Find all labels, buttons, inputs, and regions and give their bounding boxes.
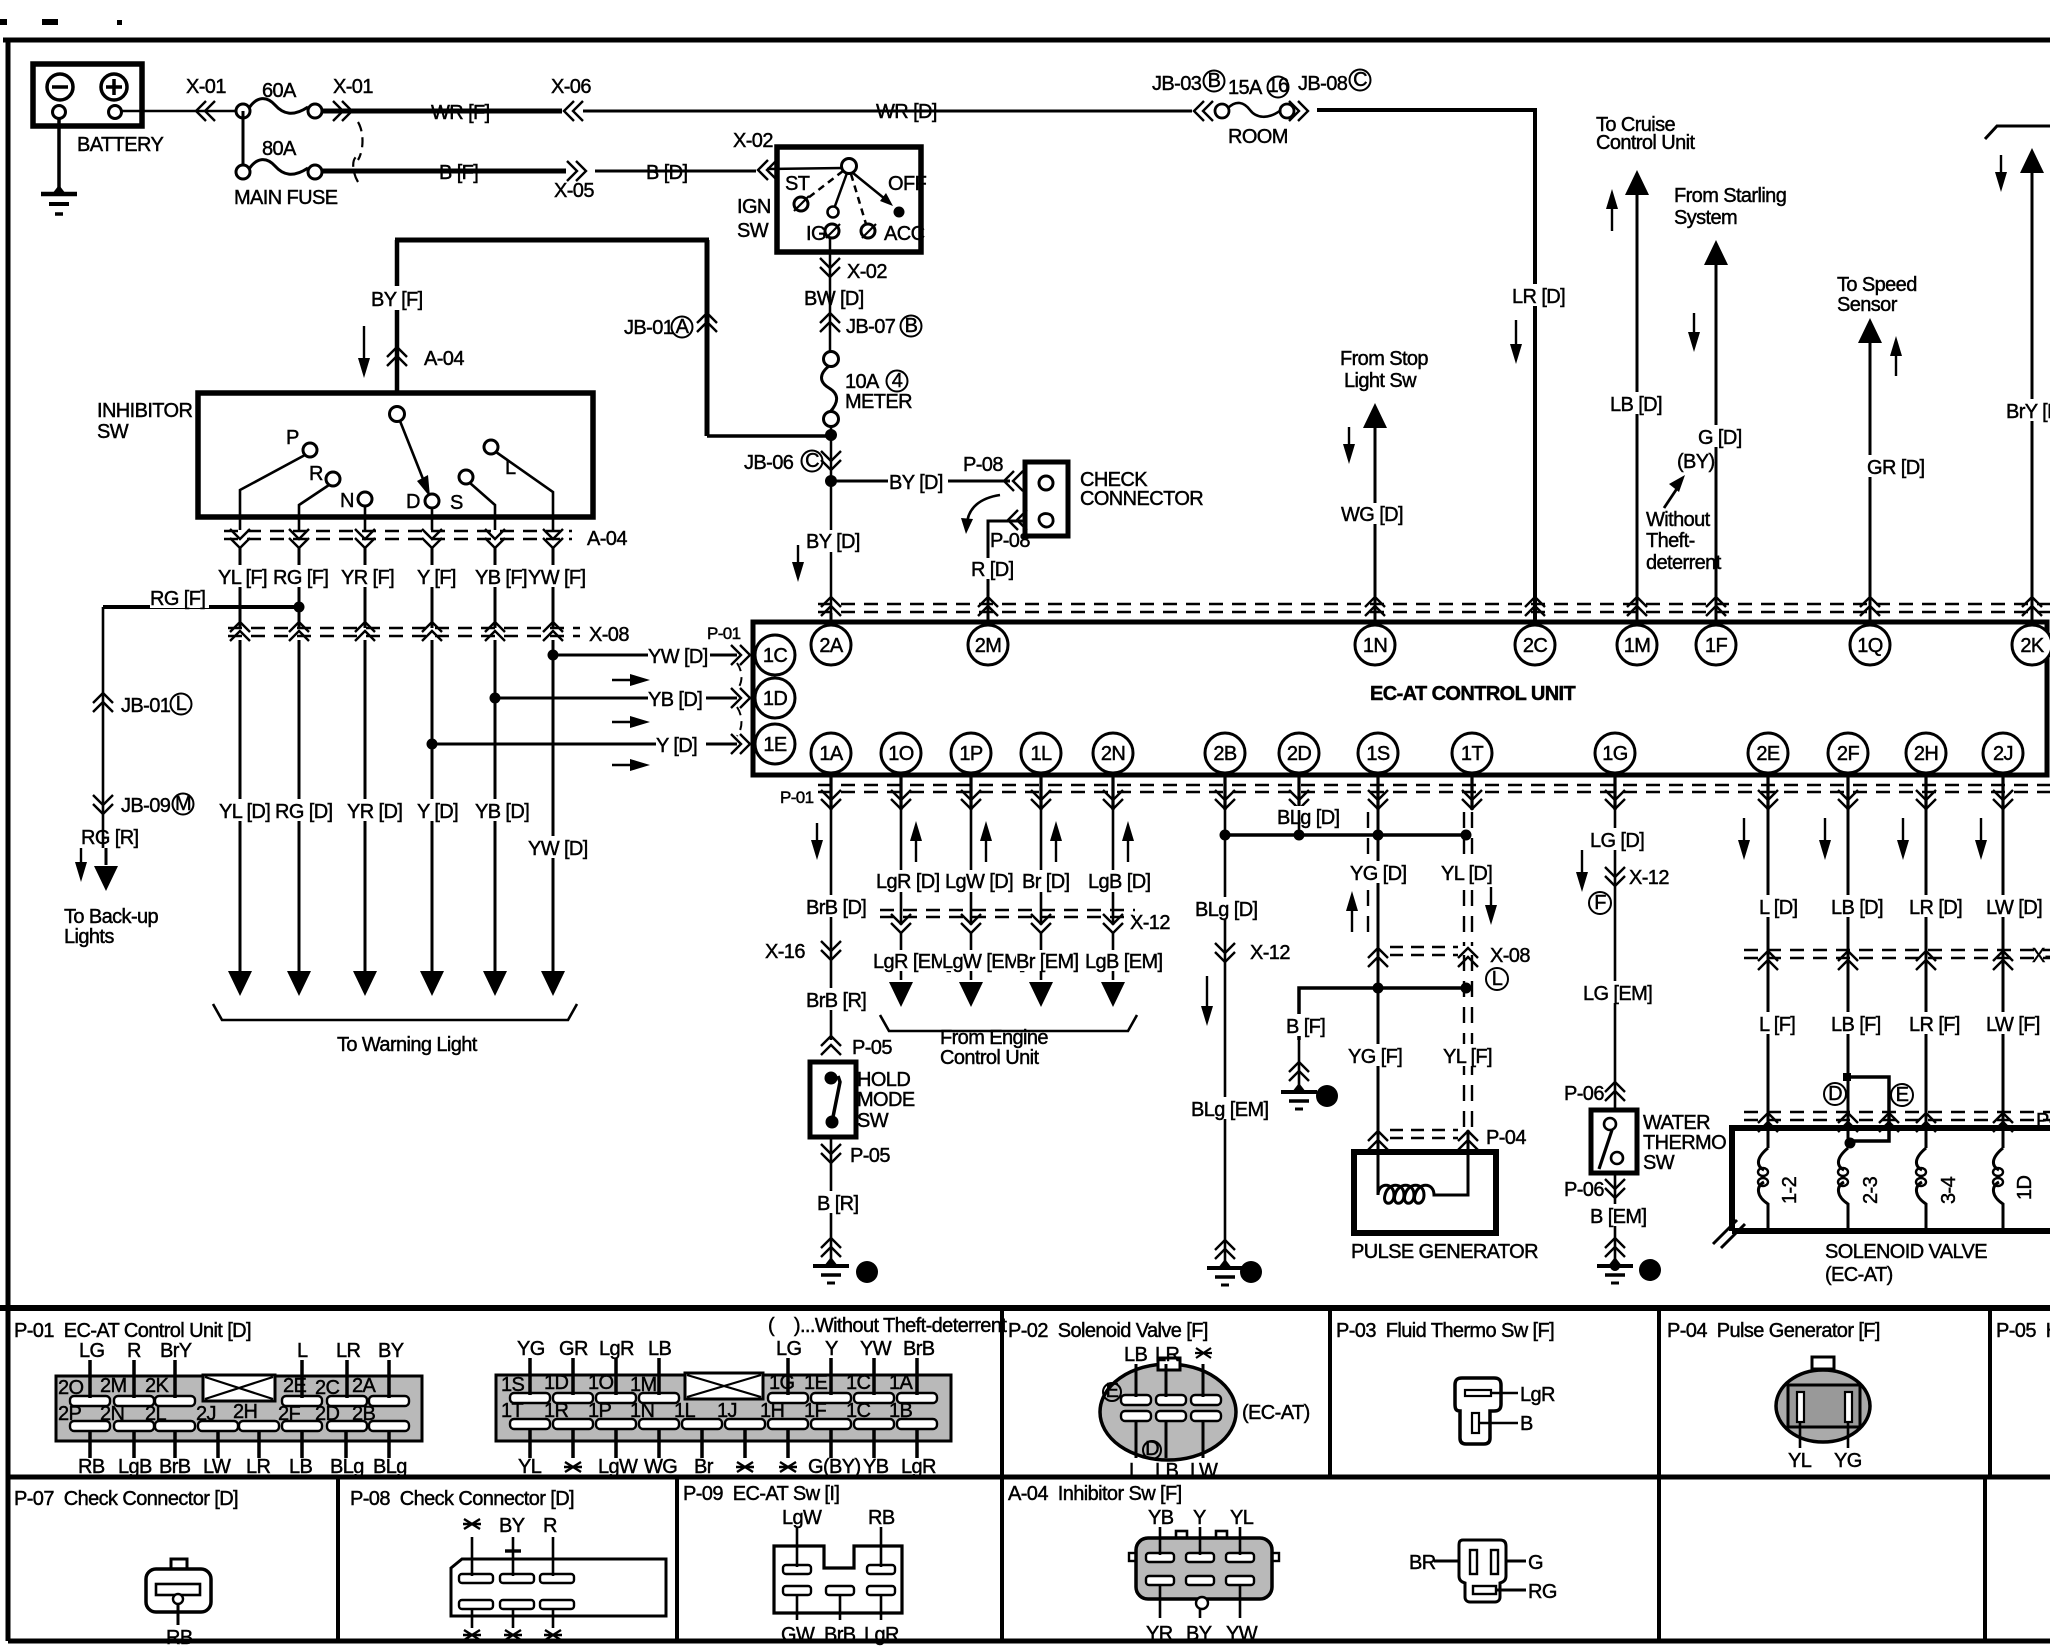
fuse meter 10A <box>822 352 839 427</box>
svg-text:SOLENOID VALVE: SOLENOID VALVE <box>1825 1241 1987 1263</box>
wires down to warning lights <box>240 640 553 972</box>
table row divider <box>8 1475 2050 1480</box>
bottom pin stubs <box>831 773 2003 810</box>
wire RG F branch horizontal <box>103 605 299 609</box>
svg-text:1Q: 1Q <box>1857 635 1883 657</box>
ground 1 <box>1281 1083 1317 1109</box>
svg-text:LG: LG <box>776 1338 802 1360</box>
arrow down YL <box>1485 887 1497 925</box>
svg-text:LgR [EM]: LgR [EM] <box>873 951 952 973</box>
ign sw arm to ST <box>808 171 843 198</box>
svg-text:L: L <box>176 693 187 715</box>
svg-text:GR [D]: GR [D] <box>1867 457 1925 479</box>
svg-text:2D: 2D <box>1287 743 1312 765</box>
connector X-01 right <box>333 101 352 121</box>
wire 1S dashed parallel <box>1367 812 1369 940</box>
pin 1P <box>951 733 991 773</box>
bus X-0 solenoid <box>1744 950 2050 958</box>
svg-text:1M: 1M <box>630 1374 657 1396</box>
junction 1S <box>1373 830 1384 841</box>
wire WR D <box>583 110 1192 113</box>
wire B F ground branch <box>1299 988 1466 1040</box>
svg-text:X-01: X-01 <box>333 76 373 98</box>
wire check conn bottom to 2M <box>988 521 1025 623</box>
svg-text:BrB [D]: BrB [D] <box>806 897 866 919</box>
svg-text:RG [F]: RG [F] <box>273 567 328 589</box>
connector JB-01 A <box>697 313 717 332</box>
svg-text:1-2: 1-2 <box>1779 1176 1801 1204</box>
wire B F <box>322 169 566 174</box>
connector P-04 on YG <box>1368 1131 1388 1150</box>
svg-text:X-12: X-12 <box>1130 912 1170 934</box>
svg-text:S: S <box>450 492 463 514</box>
svg-text:YL: YL <box>1788 1450 1812 1472</box>
svg-text:INHIBITOR: INHIBITOR <box>97 400 193 422</box>
svg-text:SW: SW <box>1643 1152 1675 1174</box>
svg-text:2M: 2M <box>100 1375 127 1397</box>
asterisk marks bottom row1 <box>564 1462 797 1472</box>
label BLg D top <box>1277 806 1340 829</box>
svg-text:L [D]: L [D] <box>1759 897 1798 919</box>
arrow down small beside 1N <box>1343 427 1355 464</box>
svg-text:RG: RG <box>1528 1581 1557 1603</box>
svg-text:BLg [EM]: BLg [EM] <box>1191 1099 1268 1121</box>
svg-text:1P: 1P <box>588 1400 612 1422</box>
svg-text:Theft-: Theft- <box>1646 530 1695 552</box>
svg-text:Br: Br <box>694 1456 714 1478</box>
arrow up big 1M cruise <box>1625 170 1649 195</box>
label YG D <box>1350 861 1406 885</box>
ign sw ST contact <box>794 196 809 211</box>
pin 2H <box>1906 733 1946 773</box>
svg-text:LgR [D]: LgR [D] <box>876 871 940 893</box>
bus P-01 bottom chevrons <box>821 790 841 809</box>
wire RG left vertical <box>102 607 105 848</box>
inhibitor sw box <box>198 393 593 517</box>
svg-text:LgR: LgR <box>901 1456 936 1478</box>
P04 leads <box>1800 1422 1848 1448</box>
top pin stubs <box>831 613 2032 623</box>
EC-AT control unit box <box>753 622 2047 775</box>
label YL F <box>1443 1044 1492 1068</box>
connector chevron into check conn bottom <box>1008 510 1027 530</box>
wire JB-01 A vertical <box>705 240 710 436</box>
P01 left bottom wire labels <box>78 1431 407 1478</box>
svg-text:B: B <box>1520 1413 1533 1435</box>
P01 right block body <box>496 1373 951 1441</box>
svg-text:P-05: P-05 <box>852 1037 892 1059</box>
connector P-06 lower <box>1605 1179 1625 1198</box>
connector JB-08 C <box>1289 101 1308 121</box>
connector gnd 1A <box>821 1238 841 1257</box>
arrow right Y <box>612 759 650 771</box>
P02 circled E <box>1103 1380 1121 1402</box>
svg-text:1A: 1A <box>819 743 844 765</box>
svg-text:BrB [R]: BrB [R] <box>806 990 866 1012</box>
circled 4 <box>887 370 908 392</box>
wire 2B down <box>1224 810 1227 1264</box>
ign sw arm to IG <box>835 173 847 206</box>
svg-text:YW: YW <box>1226 1623 1258 1645</box>
pin 1G <box>1595 733 1635 773</box>
label WG D <box>1341 503 1407 526</box>
svg-text:LB [D]: LB [D] <box>1610 394 1662 416</box>
svg-text:1E: 1E <box>804 1372 828 1394</box>
connector gnd 2B <box>1215 1240 1235 1259</box>
arrow down small beside 2C <box>1510 320 1522 364</box>
svg-text:Without: Without <box>1646 509 1711 531</box>
svg-text:2F: 2F <box>278 1403 301 1425</box>
wire YL F lower solid <box>1467 1130 1470 1155</box>
svg-text:P-03 Fluid Thermo Sw [F]: P-03 Fluid Thermo Sw [F] <box>1336 1320 1554 1342</box>
labels solenoid D <box>1759 895 1799 919</box>
circled M <box>173 793 194 815</box>
svg-text:1E: 1E <box>763 734 787 756</box>
svg-text:BLg: BLg <box>330 1456 364 1478</box>
svg-text:YB [D]: YB [D] <box>475 801 529 823</box>
labels D row <box>219 799 273 823</box>
svg-text:E: E <box>1896 1084 1909 1106</box>
lead N <box>364 506 367 530</box>
svg-text:X-12: X-12 <box>1629 867 1669 889</box>
svg-text:8: 8 <box>1246 1261 1257 1283</box>
lead P <box>240 455 305 530</box>
svg-text:P-04 Pulse Generator [F]: P-04 Pulse Generator [F] <box>1667 1320 1880 1342</box>
ground 7 <box>1597 1257 1633 1283</box>
svg-text:1F: 1F <box>1705 635 1728 657</box>
svg-text:LR: LR <box>246 1456 271 1478</box>
svg-text:CONNECTOR: CONNECTOR <box>1080 488 1203 510</box>
svg-text:IGN: IGN <box>737 196 771 218</box>
svg-text:16: 16 <box>1267 75 1289 97</box>
connector JB-06 C <box>821 451 841 470</box>
svg-text:P-01 EC-AT Control Unit [D]: P-01 EC-AT Control Unit [D] <box>14 1320 251 1342</box>
P09 connector <box>774 1546 902 1613</box>
svg-text:X-08: X-08 <box>589 624 629 646</box>
svg-text:YL: YL <box>518 1456 542 1478</box>
pin 1O <box>881 733 921 773</box>
svg-text:L: L <box>1129 1460 1140 1482</box>
svg-text:1G: 1G <box>1602 743 1628 765</box>
svg-text:1T: 1T <box>1461 743 1484 765</box>
lead S <box>470 483 495 530</box>
pin 2F <box>1828 733 1868 773</box>
svg-text:YW: YW <box>860 1338 892 1360</box>
svg-text:P-01: P-01 <box>780 788 814 807</box>
svg-text:BY [F]: BY [F] <box>371 289 423 311</box>
svg-text:Y: Y <box>1193 1507 1206 1529</box>
bus P-01 top <box>818 604 2050 612</box>
contact D <box>425 494 439 508</box>
svg-text:3-4: 3-4 <box>1938 1176 1960 1204</box>
svg-text:1D: 1D <box>544 1372 569 1394</box>
arrow down small beside 1F <box>1688 313 1700 352</box>
svg-text:P-05 H: P-05 H <box>1996 1320 2050 1342</box>
svg-text:ROOM: ROOM <box>1228 126 1288 148</box>
A04 slots <box>1146 1553 1254 1585</box>
A04 bottom leads <box>1160 1585 1240 1618</box>
connector X-08 on 1S <box>1368 948 1388 967</box>
svg-text:LR [F]: LR [F] <box>1909 1014 1960 1036</box>
ground number 6 <box>856 1261 878 1283</box>
junction 2B BLg <box>1220 830 1231 841</box>
contact R <box>326 472 340 486</box>
svg-text:BR: BR <box>1409 1552 1436 1574</box>
P01 left block bottom pins <box>70 1421 409 1431</box>
label B EM <box>1590 1204 1646 1228</box>
svg-text:LgW: LgW <box>598 1456 638 1478</box>
svg-text:BATTERY: BATTERY <box>77 134 163 156</box>
P03 leads <box>1479 1393 1518 1423</box>
connector P-06 upper <box>1605 1082 1625 1101</box>
labels engine D row <box>876 870 940 893</box>
contact N <box>358 492 372 506</box>
svg-text:F: F <box>1594 892 1606 914</box>
check connector box <box>1025 462 1068 536</box>
arrow up big 2K <box>2020 148 2044 173</box>
svg-text:2E: 2E <box>1756 743 1780 765</box>
svg-text:2C: 2C <box>1523 635 1548 657</box>
pin 1M <box>1617 625 1657 665</box>
warning brace <box>213 1004 577 1020</box>
hold mode contacts <box>825 1072 841 1129</box>
circled B2 <box>1204 70 1225 92</box>
label LG D <box>1590 828 1644 852</box>
bus P-01 bottom <box>818 785 2050 792</box>
svg-text:LB [D]: LB [D] <box>1831 897 1883 919</box>
A04 top leads <box>1160 1527 1240 1555</box>
coil 3-4 <box>1916 1148 1926 1228</box>
table bottom border <box>8 1639 2050 1644</box>
svg-text:2K: 2K <box>2020 635 2045 657</box>
P09 top leads <box>797 1527 881 1567</box>
svg-text:MODE: MODE <box>857 1089 915 1111</box>
labels solenoid F <box>1759 1012 1799 1036</box>
wire 1F down <box>1715 262 1718 620</box>
labels F row <box>218 565 274 589</box>
check connector terminal top <box>1039 476 1053 490</box>
svg-text:LR [D]: LR [D] <box>1909 897 1962 919</box>
svg-text:LB: LB <box>1124 1344 1148 1366</box>
wire between fuses <box>242 111 245 171</box>
label LG EM <box>1583 981 1652 1005</box>
svg-text:P-01: P-01 <box>707 624 741 643</box>
svg-text:Y [D]: Y [D] <box>656 735 697 757</box>
tap YW D to 1C <box>548 650 738 661</box>
tap Y D to 1E <box>427 739 738 750</box>
svg-text:WR [D]: WR [D] <box>876 101 937 123</box>
ign sw box <box>777 147 921 252</box>
circled L pulse <box>1486 968 1508 990</box>
svg-text:7: 7 <box>1645 1259 1656 1281</box>
room fuse 15A <box>1215 103 1294 118</box>
ign sw arm to OFF <box>853 173 893 206</box>
svg-text:A-04 Inhibitor Sw [F]: A-04 Inhibitor Sw [F] <box>1008 1483 1182 1505</box>
P08 bottom leads <box>472 1609 553 1628</box>
svg-text:PULSE GENERATOR: PULSE GENERATOR <box>1351 1241 1538 1263</box>
svg-text:YB: YB <box>863 1456 889 1478</box>
svg-text:1T: 1T <box>501 1400 524 1422</box>
connector gnd thermo <box>1605 1238 1625 1257</box>
svg-text:BrB: BrB <box>824 1624 856 1646</box>
svg-text:LgW [D]: LgW [D] <box>945 871 1013 893</box>
svg-text:P-08: P-08 <box>990 530 1030 552</box>
svg-text:WATER: WATER <box>1643 1112 1710 1134</box>
wire meter fuse down <box>830 426 833 623</box>
svg-text:BrB: BrB <box>159 1456 191 1478</box>
label B F <box>1286 1014 1328 1038</box>
svg-text:2J: 2J <box>196 1403 216 1425</box>
svg-text:80A: 80A <box>262 138 297 160</box>
svg-text:1S: 1S <box>1366 743 1390 765</box>
wire B F stub <box>1298 1036 1301 1088</box>
svg-text:GW: GW <box>781 1624 815 1646</box>
table left border <box>6 1308 11 1641</box>
main fuse 80A <box>236 160 322 179</box>
svg-text:YB [D]: YB [D] <box>648 689 702 711</box>
svg-text:2D: 2D <box>315 1403 340 1425</box>
svg-text:2K: 2K <box>145 1375 170 1397</box>
junction YL end <box>1461 830 1472 841</box>
svg-text:LW: LW <box>1190 1460 1218 1482</box>
wires engine EM stubs <box>901 933 1113 980</box>
svg-text:RB: RB <box>868 1507 895 1529</box>
junction meter / JB-01 <box>825 429 837 441</box>
svg-text:2H: 2H <box>233 1401 257 1423</box>
svg-text:1L: 1L <box>1030 743 1052 765</box>
svg-text:2C: 2C <box>315 1377 340 1399</box>
svg-text:X-01: X-01 <box>186 76 226 98</box>
P08 bottom asterisks <box>463 1630 562 1640</box>
border top dashes <box>0 19 122 25</box>
label BrY D <box>2006 399 2050 423</box>
svg-text:L: L <box>1492 968 1503 990</box>
svg-text:1: 1 <box>1322 1085 1333 1107</box>
svg-text:YG: YG <box>1834 1450 1862 1472</box>
wire BY D to check connector <box>831 480 1010 483</box>
junction BY D branch <box>825 475 837 487</box>
svg-text:1R: 1R <box>544 1400 569 1422</box>
svg-text:EC-AT CONTROL UNIT: EC-AT CONTROL UNIT <box>1370 683 1575 705</box>
svg-text:C: C <box>1353 69 1367 91</box>
pin 2E <box>1748 733 1788 773</box>
svg-text:YR [D]: YR [D] <box>347 801 402 823</box>
svg-text:YG: YG <box>517 1338 545 1360</box>
P02 asterisk top <box>1195 1348 1212 1358</box>
pin 1S <box>1358 733 1398 773</box>
ground 8 <box>1207 1259 1243 1285</box>
contact P <box>303 443 317 457</box>
coil 1D <box>1993 1148 2003 1228</box>
connector dashed bracket X-01 <box>353 122 362 182</box>
svg-text:YW [F]: YW [F] <box>528 567 586 589</box>
connector X-01 left <box>196 101 215 121</box>
brace engine <box>880 1015 1137 1031</box>
arrows down solenoid <box>1738 818 1987 860</box>
A04 second connector BR G RG <box>1459 1540 1506 1602</box>
svg-text:E: E <box>1106 1380 1119 1402</box>
arrow down big backup <box>94 848 118 891</box>
svg-text:LgW [EM]: LgW [EM] <box>942 951 1025 973</box>
bus X-12 chevrons <box>891 914 911 933</box>
P01 left block cell ids <box>58 1375 377 1425</box>
solenoid valve box <box>1732 1128 2050 1231</box>
svg-text:OFF: OFF <box>888 173 927 195</box>
svg-text:LW: LW <box>203 1456 231 1478</box>
svg-text:YW [D]: YW [D] <box>648 646 708 668</box>
coil 1-2 <box>1758 1148 1768 1228</box>
svg-text:D: D <box>406 491 420 513</box>
junction YG at 988 <box>1373 983 1384 994</box>
svg-text:From Engine: From Engine <box>940 1027 1048 1049</box>
svg-text:LG [D]: LG [D] <box>1590 830 1644 852</box>
arrow up big 1F starting <box>1704 240 1728 265</box>
P01 left block top pins <box>70 1396 409 1406</box>
battery plus terminal <box>101 74 127 100</box>
svg-text:B [EM]: B [EM] <box>1590 1206 1646 1228</box>
svg-text:LB [F]: LB [F] <box>1831 1014 1881 1036</box>
svg-text:YR: YR <box>1146 1623 1173 1645</box>
P02 bottom leads <box>1136 1421 1203 1458</box>
wire YL F down <box>1464 955 1472 1130</box>
battery post circles <box>53 106 122 119</box>
svg-text:RG [D]: RG [D] <box>275 801 333 823</box>
svg-text:BY [D]: BY [D] <box>889 472 943 494</box>
arrow up YG <box>1346 891 1358 932</box>
solenoid box hatch <box>1713 1220 1745 1248</box>
ign sw ACC contact <box>861 224 876 238</box>
svg-text:B [R]: B [R] <box>817 1193 858 1215</box>
svg-text:LgR: LgR <box>864 1624 899 1646</box>
ground dot thermo <box>1610 1261 1620 1271</box>
bus A-04 below inhibitor <box>224 531 572 539</box>
pin 2C <box>1515 625 1555 665</box>
pin 2D <box>1279 733 1319 773</box>
svg-text:X-05: X-05 <box>554 180 594 202</box>
svg-text:LG: LG <box>79 1340 105 1362</box>
ign sw arm to ACC <box>851 174 866 224</box>
circled B <box>901 315 922 337</box>
svg-text:Sensor: Sensor <box>1837 294 1898 316</box>
wires engine ctrl group down <box>901 810 1113 925</box>
label YG F <box>1348 1044 1402 1068</box>
svg-text:1N: 1N <box>630 1400 654 1422</box>
ign sw IG contact <box>825 207 840 239</box>
P02 top leads <box>1136 1364 1203 1397</box>
connector X-02 below ign <box>820 258 840 277</box>
svg-text:C: C <box>805 450 819 472</box>
svg-text:THERMO: THERMO <box>1643 1132 1726 1154</box>
wire WR F <box>322 109 562 114</box>
svg-text:( )...Without Theft-deterre: ( )...Without Theft-deterrent <box>768 1315 1007 1337</box>
label BrB R <box>806 988 866 1012</box>
frame top border <box>3 38 2050 43</box>
svg-text:LgB: LgB <box>118 1456 152 1478</box>
wire thermo down <box>1614 1173 1617 1262</box>
svg-text:LR [D]: LR [D] <box>1512 286 1565 308</box>
svg-text:A: A <box>676 316 690 338</box>
A04 G lead <box>1506 1552 1543 1574</box>
wire BY F horizontal top <box>395 238 709 243</box>
P01 right block bottom pins <box>510 1419 937 1429</box>
svg-text:JB-03: JB-03 <box>1152 73 1202 95</box>
svg-text:6: 6 <box>862 1261 873 1283</box>
P08 slots <box>459 1574 574 1609</box>
svg-text:SW: SW <box>737 220 769 242</box>
circled A <box>672 316 693 338</box>
svg-text:(EC-AT): (EC-AT) <box>1242 1402 1310 1424</box>
svg-text:Y [D]: Y [D] <box>417 801 458 823</box>
